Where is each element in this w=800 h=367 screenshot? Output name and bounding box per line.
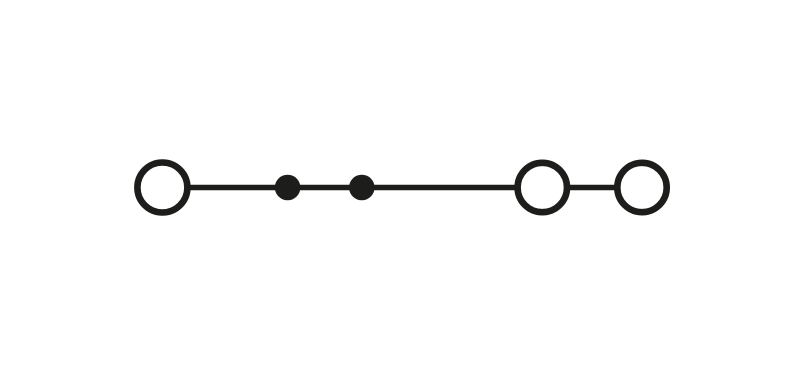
terminal point 3 xyxy=(617,163,666,212)
junction node A xyxy=(275,175,301,201)
terminal point 1 xyxy=(137,163,187,213)
terminal point 2 xyxy=(518,163,567,212)
junction node B xyxy=(349,175,375,201)
wire xyxy=(189,185,517,190)
wire xyxy=(568,185,616,190)
